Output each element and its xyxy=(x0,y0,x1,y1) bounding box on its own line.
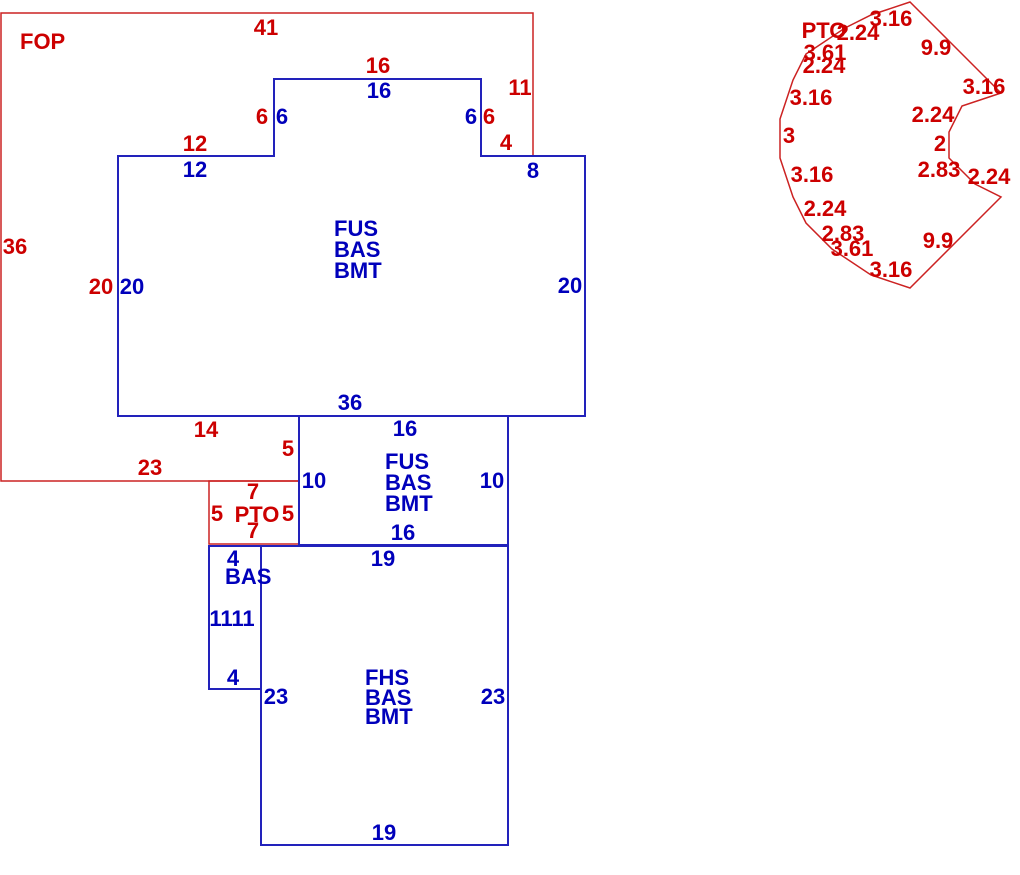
svg-text:12: 12 xyxy=(183,131,207,156)
svg-text:9.9: 9.9 xyxy=(923,228,954,253)
svg-text:36: 36 xyxy=(338,390,362,415)
svg-text:5: 5 xyxy=(211,501,223,526)
red PTO rectangle xyxy=(209,481,299,544)
svg-text:12: 12 xyxy=(183,157,207,182)
svg-text:10: 10 xyxy=(480,468,504,493)
svg-text:9.9: 9.9 xyxy=(921,35,952,60)
svg-text:16: 16 xyxy=(366,53,390,78)
svg-text:2.83: 2.83 xyxy=(918,157,961,182)
svg-text:3.61: 3.61 xyxy=(831,236,874,261)
svg-text:19: 19 xyxy=(371,546,395,571)
svg-text:16: 16 xyxy=(367,78,391,103)
svg-text:20: 20 xyxy=(558,273,582,298)
svg-text:3.16: 3.16 xyxy=(791,162,834,187)
svg-text:3.16: 3.16 xyxy=(963,74,1006,99)
svg-text:3.16: 3.16 xyxy=(870,257,913,282)
svg-text:16: 16 xyxy=(391,520,415,545)
svg-text:2.24: 2.24 xyxy=(804,196,848,221)
svg-text:5: 5 xyxy=(282,436,294,461)
svg-text:20: 20 xyxy=(89,274,113,299)
svg-text:16: 16 xyxy=(393,416,417,441)
svg-text:3: 3 xyxy=(783,123,795,148)
svg-text:4: 4 xyxy=(500,130,513,155)
svg-text:41: 41 xyxy=(254,15,278,40)
svg-text:BMT: BMT xyxy=(334,258,382,283)
blue middle FUS rectangle xyxy=(299,416,508,545)
svg-text:BAS: BAS xyxy=(225,564,271,589)
red labels circle PTO xyxy=(783,6,1011,282)
svg-text:5: 5 xyxy=(282,501,294,526)
svg-text:8: 8 xyxy=(527,158,539,183)
svg-text:6: 6 xyxy=(276,104,288,129)
red PTO circle polygon xyxy=(780,2,1001,288)
blue upper FUS polygon xyxy=(118,79,585,416)
red FOP polygon outline xyxy=(1,13,533,481)
blue BAS rectangle xyxy=(209,546,261,689)
svg-text:19: 19 xyxy=(372,820,396,845)
svg-text:7: 7 xyxy=(247,518,259,543)
svg-text:10: 10 xyxy=(302,468,326,493)
svg-text:20: 20 xyxy=(120,274,144,299)
svg-text:2.24: 2.24 xyxy=(803,53,847,78)
svg-text:2: 2 xyxy=(934,131,946,156)
svg-text:6: 6 xyxy=(483,104,495,129)
svg-text:11: 11 xyxy=(508,75,531,100)
svg-text:2.24: 2.24 xyxy=(968,164,1012,189)
svg-text:BMT: BMT xyxy=(385,491,433,516)
svg-text:1111: 1111 xyxy=(209,606,254,631)
red labels FOP xyxy=(3,15,532,543)
svg-text:3.16: 3.16 xyxy=(790,85,833,110)
svg-text:FOP: FOP xyxy=(20,29,65,54)
svg-text:2.24: 2.24 xyxy=(912,102,956,127)
svg-text:BMT: BMT xyxy=(365,704,413,729)
blue FHS rectangle xyxy=(261,546,508,845)
svg-text:23: 23 xyxy=(138,455,162,480)
svg-text:4: 4 xyxy=(227,665,240,690)
svg-text:36: 36 xyxy=(3,234,27,259)
blue labels xyxy=(120,78,582,845)
svg-text:7: 7 xyxy=(247,479,259,504)
svg-text:6: 6 xyxy=(256,104,268,129)
svg-text:23: 23 xyxy=(264,684,288,709)
svg-text:23: 23 xyxy=(481,684,505,709)
svg-text:6: 6 xyxy=(465,104,477,129)
svg-text:14: 14 xyxy=(194,417,219,442)
